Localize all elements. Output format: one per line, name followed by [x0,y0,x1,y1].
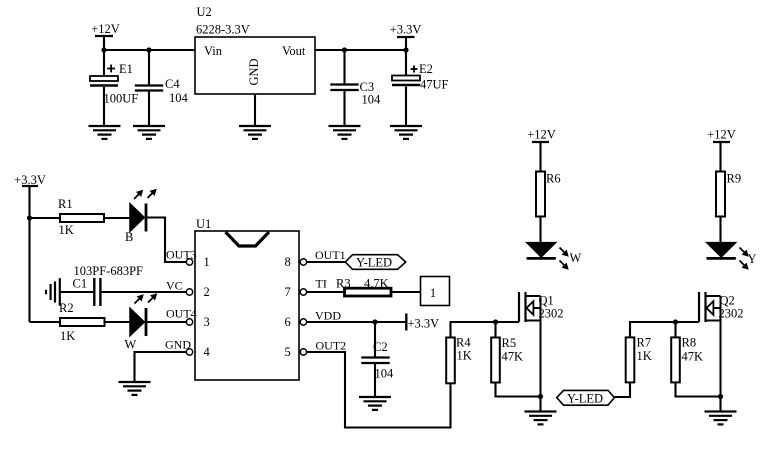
svg-text:R4: R4 [456,336,471,350]
wire ground to C1 [61,291,93,293]
capacitor C4 104 [135,50,189,126]
svg-text:R5: R5 [502,336,517,350]
transistor Q2 2302 [699,292,744,397]
svg-text:2: 2 [204,285,210,299]
wire U2 GND pin [254,94,256,126]
svg-text:+12V: +12V [707,128,736,142]
svg-text:Vout: Vout [282,44,306,58]
resistor R8 47K [671,322,703,382]
svg-text:Y-LED: Y-LED [567,392,603,406]
svg-text:2302: 2302 [539,307,564,321]
power +3.3V (top) [390,23,422,51]
svg-text:U1: U1 [196,217,211,231]
power +12V (Q1 branch) [527,128,556,172]
ground under Q2 [705,412,737,425]
LED B [125,190,156,245]
pin 5 circle OUT2 [300,339,346,356]
svg-text:OUT3: OUT3 [166,248,197,262]
wire pin 5 OUT2 routing [307,352,451,428]
wire pin 4 to ground [135,352,187,382]
svg-text:OUT2: OUT2 [316,339,347,353]
capacitor C3 104 [330,50,381,126]
pin 1 circle OUT3 [166,248,197,266]
resistor R4 1K [446,336,472,384]
wire C1 to pin 2 [102,291,187,293]
svg-text:U2: U2 [197,5,212,19]
svg-text:Y-LED: Y-LED [356,256,392,270]
svg-text:R2: R2 [59,301,74,315]
svg-text:GND: GND [165,338,191,352]
node Q2 source junction [718,394,723,399]
svg-text:+3.3V: +3.3V [408,317,440,331]
pin 2 circle VC [166,279,193,296]
node C2 junction [372,319,377,324]
wire Vout rail [315,49,406,51]
svg-text:VDD: VDD [315,309,341,323]
wire pin 6 VDD to +3.3V [307,321,406,323]
wire Q1 source to ground [539,397,541,412]
pin 7 circle TI [300,277,327,296]
ground under U2 [239,126,271,139]
pin 4 circle GND [165,338,193,356]
node C4 junction [146,47,151,52]
svg-text:100UF: 100UF [104,92,139,106]
svg-text:C1: C1 [73,277,88,291]
resistor R1 1K [58,197,104,237]
ground under C4 [133,126,165,139]
transistor Q1 2302 [519,292,564,397]
svg-text:W: W [125,338,137,352]
svg-text:3: 3 [204,315,210,329]
node R5 junction [493,319,498,324]
wire rail to R2 (left stub) [30,321,61,323]
svg-text:OUT4: OUT4 [166,307,197,321]
ground under E2 [390,126,422,139]
wire tag to R7 [615,383,631,398]
LED W [125,294,157,352]
svg-text:Q1: Q1 [539,294,554,308]
svg-text:C4: C4 [165,77,180,91]
pin 6 circle VDD [300,309,341,326]
wire R2 to LED W [105,321,131,323]
node box 1 [421,277,450,306]
LED Y (Q2 branch) [707,217,757,270]
svg-text:47K: 47K [682,350,704,364]
svg-text:R1: R1 [58,197,73,211]
svg-text:TI: TI [316,277,327,291]
ground under C2 [359,397,391,410]
wire R1 to LED B [104,217,130,219]
svg-text:R6: R6 [546,172,561,186]
svg-text:Q2: Q2 [720,294,735,308]
chassis ground for C1 [46,278,60,306]
wire R7 to Q2 gate [630,322,699,337]
svg-text:Y: Y [748,252,757,266]
pin 8 circle OUT1 [300,248,345,265]
svg-text:104: 104 [375,367,395,381]
capacitor E1 100UF [90,50,138,126]
net tag Y-LED (to R7) [557,390,615,405]
resistor R6 [536,172,561,217]
ground under U1 pin4 [119,382,151,395]
svg-text:+12V: +12V [527,128,556,142]
svg-text:+3.3V: +3.3V [390,23,422,37]
svg-text:6228-3.3V: 6228-3.3V [196,23,250,37]
svg-text:5: 5 [285,345,291,359]
svg-text:R8: R8 [682,336,697,350]
wire Q2 source to ground [719,397,721,412]
svg-text:6: 6 [285,315,291,329]
wire R5 bottom to source node [496,383,541,397]
node E2 junction [403,47,408,52]
wire pin 7 to R3 [307,291,345,293]
ground under E1 [89,126,121,139]
wire R4 to Q1 gate [451,322,520,338]
resistor R9 [716,172,741,217]
net tag Y-LED (OUT1) [345,255,406,270]
wire R8 bottom to source node [676,382,721,396]
wire pin 8 to Y-LED tag [307,261,345,263]
svg-text:C2: C2 [373,340,388,354]
node R1 junction [27,215,32,220]
svg-text:+12V: +12V [91,22,120,36]
resistor R7 1K [626,336,652,383]
svg-text:B: B [125,230,133,244]
svg-text:47UF: 47UF [420,78,449,92]
svg-text:VC: VC [166,279,183,293]
svg-text:W: W [570,251,582,265]
svg-text:1: 1 [204,255,210,269]
power +12V (Q2 branch) [707,128,736,172]
svg-text:GND: GND [247,58,261,85]
node C3 junction [342,47,347,52]
capacitor C1 103PF-683PF [73,264,144,306]
wire to R1 [30,217,61,219]
wire LED B to pin 1 [147,218,186,263]
svg-text:E2: E2 [419,62,433,76]
node E1/+12V junction [101,47,106,52]
node Q1 source junction [538,394,543,399]
power +12V (top left) [91,22,120,50]
svg-text:47K: 47K [502,350,524,364]
capacitor C2 104 [361,322,394,397]
svg-text:104: 104 [362,93,382,107]
svg-text:2302: 2302 [719,307,744,321]
pin 3 circle OUT4 [166,307,197,326]
svg-text:R7: R7 [637,336,652,350]
capacitor E2 47UF [392,50,449,126]
node R8 junction [673,319,678,324]
wire R3 to box 1 [391,291,421,293]
svg-text:1: 1 [430,286,436,300]
svg-text:104: 104 [169,91,189,105]
svg-text:7: 7 [285,285,291,299]
ground under C3 [329,126,361,139]
wire LED W to pin 3 [147,321,186,323]
svg-text:1K: 1K [59,223,74,237]
svg-text:4: 4 [204,345,211,359]
power +3.3V (VDD tap) [406,314,439,331]
svg-text:Vin: Vin [204,44,223,58]
wire +12V rail to Vin [104,49,195,51]
svg-text:1K: 1K [637,349,652,363]
power +3.3V (left rail) [14,173,46,322]
ground under Q1 [525,412,557,425]
svg-text:8: 8 [285,255,291,269]
svg-text:1K: 1K [457,349,472,363]
regulator U2 6228-3.3V [195,5,315,94]
svg-text:E1: E1 [119,62,133,76]
resistor R5 47K [491,322,523,383]
op-amp U1 (8-pin IC) [195,217,299,380]
resistor R2 1K [59,301,105,343]
resistor R3 4.7K [336,277,391,297]
svg-text:OUT1: OUT1 [315,248,346,262]
svg-text:1K: 1K [60,329,75,343]
svg-text:R9: R9 [727,172,742,186]
LED W (Q1 branch) [527,217,582,270]
